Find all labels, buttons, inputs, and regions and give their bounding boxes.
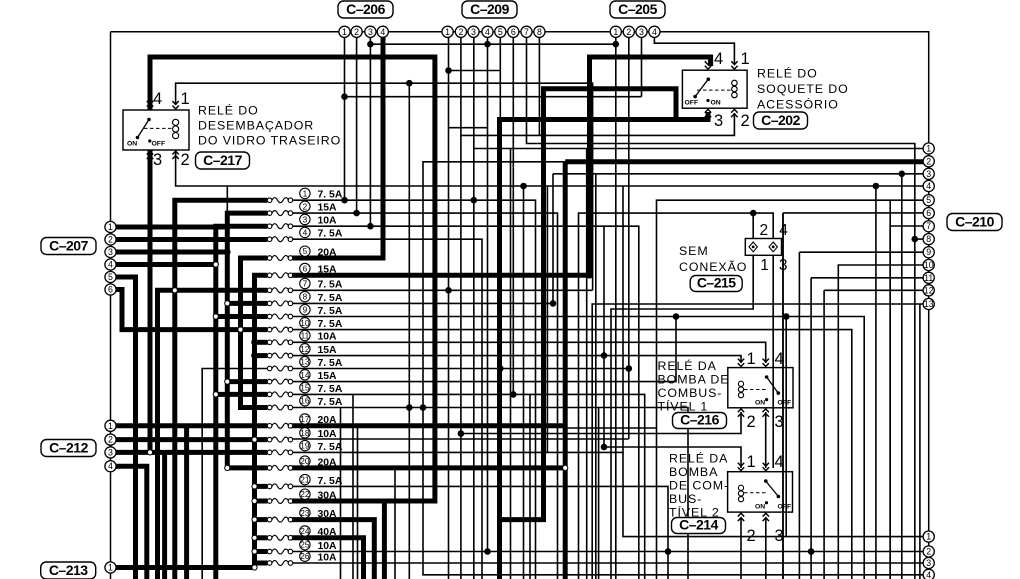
node bus254/fuse22 [252,498,257,503]
connector label C-209 [462,1,517,18]
wire C-209 pin7 to net y143.5 [527,37,915,579]
relay C-214 switch [744,479,780,504]
connector C-206 pin 2 [351,26,362,37]
wire C-209 pin8 down [538,37,540,135]
svg-text:C–216: C–216 [680,411,719,427]
fuse F20 symbol [267,465,292,470]
wire C-215 pin3 down [772,255,774,468]
wire fuse19 output riser [293,186,623,452]
wire branch to fuse bus at x227 [226,186,228,213]
svg-text:4: 4 [108,461,113,471]
wire C-210 pin12 drop [823,290,825,579]
wire C-210 pin8 feed [915,238,923,240]
wire C-206 pin1 down to fuse1 line [344,37,346,200]
wire fuse25 output line to lower pin2 [293,551,923,553]
wire branch x890.2 from fuse1 line [889,200,891,579]
svg-text:SEM: SEM [679,244,709,258]
thick wire fuse17 output [290,423,565,428]
wire relay C-214 pin3 down [765,517,767,579]
svg-text:7. 5A: 7. 5A [318,293,343,304]
wire fuse21 output [293,486,668,579]
svg-text:5: 5 [926,195,931,205]
fuse F17 symbol [267,423,292,428]
wire fuse1 output line [293,200,536,579]
wire stub from C-209.1 node [449,70,501,72]
wire filler x395 [394,468,396,579]
svg-text:10A: 10A [318,332,338,343]
svg-text:3: 3 [714,112,723,130]
node bus254/fuse25 [252,549,257,554]
fuse F4 number [300,227,310,237]
wire C-210 pin12 feed [824,289,923,291]
wire thin y161.8 to drop x423 to lower pin4 [423,162,923,575]
wire fuse8 output line [293,302,553,304]
svg-text:6: 6 [303,264,308,274]
thick stub fuse24 [255,535,268,540]
thick stub fuse15 [216,392,268,397]
fuse F18 number [300,428,310,438]
thick stub fuse11 [255,340,268,345]
node bus174/fuse7 [172,288,177,293]
svg-text:1: 1 [926,144,931,154]
fuse F23 number [300,508,310,518]
svg-text:2: 2 [759,222,768,239]
svg-text:1: 1 [747,453,756,471]
wire C-205 pin3 drop [641,37,643,97]
node fuse6out/riser [586,272,593,279]
node C-205.2/fuse13 [626,365,633,372]
svg-text:12: 12 [924,285,934,295]
connector label C-213 [41,562,96,579]
connector C-215 box [745,239,781,256]
svg-text:C–212: C–212 [49,439,88,455]
fuse F19 number [300,440,310,450]
svg-text:RELÉ DO: RELÉ DO [198,103,259,118]
node bus254/fuse24 [252,535,257,540]
relay C-217 pin4 arrows [147,101,153,109]
wire filler x357.5 [357,426,359,579]
thick stub fuse9 [216,314,268,319]
connector C-207 pin 2 [105,234,116,245]
thick wire C-212 pin2 fuse18 row [111,437,268,442]
thick wire C-212 pin3 fuse19 row [111,450,268,455]
node C-206.1/y96.7 [341,93,348,100]
node x604/fuse12 [601,352,608,359]
thick bus x240.5 fuse5-fuse16 [241,258,268,408]
connector C-209 pin 2 [455,26,466,37]
svg-text:5: 5 [498,27,503,37]
wire relay C-216 pin3 to C-214 pin4 [765,412,767,468]
svg-text:1: 1 [613,27,618,37]
svg-text:12: 12 [300,344,310,354]
svg-text:C–215: C–215 [697,274,736,290]
fuse F21 number [300,474,310,484]
fuse F13 symbol [267,366,292,371]
fuse F1 symbol [267,198,292,203]
fuse F7 number [300,278,310,288]
svg-text:2: 2 [926,156,931,166]
svg-text:24: 24 [300,526,310,536]
thick stub fuse21 [255,484,268,489]
svg-text:3: 3 [108,447,113,457]
svg-text:11: 11 [924,273,933,283]
thick wire fuse24 output down [290,538,363,579]
connector lower-right pin 2 [923,546,934,557]
wire curtain x510.5 [510,149,512,579]
fuse F18 symbol [267,437,292,442]
svg-text:40A: 40A [318,527,338,538]
thick bus x227 fuse2-fuse20 [227,213,267,468]
node C-207.3/bus227 [224,249,231,256]
node bus254/fuse21 [252,484,257,489]
connector C-212 pin 2 [105,434,116,445]
node bus227/fuse20corner [225,465,230,470]
node x875/C-210.4 [873,183,880,190]
wire curtain x598.6 [598,408,600,579]
wire C-210 pin13 feed [592,304,923,579]
node bus240/fuse10 [238,327,243,332]
svg-text:3: 3 [303,214,308,224]
relay C-217 coil [173,119,179,138]
connector C-210 pin 4 [923,180,934,191]
thick wire fuse23 output down [290,520,374,579]
fuse F24 symbol [267,535,292,540]
connector C-206 pin 4 [377,26,388,37]
thick riser bus x543.5 to C-202 pin3 [500,89,677,520]
connector C-207 pin 4 [105,259,116,270]
wire curtain x547.4 [546,186,548,452]
fuse F22 number [300,489,310,499]
thick stub fuse26 [255,561,268,566]
svg-text:20A: 20A [318,247,338,258]
svg-text:C–210: C–210 [955,213,994,229]
svg-text:ACESSÓRIO: ACESSÓRIO [757,97,839,112]
connector C-207 pin 3 [105,246,116,257]
node C-209.1/y70.5 [445,67,452,74]
wire C-210 pin1 feed [474,148,923,150]
wire fuse12 output to relay C-216 pin1 [293,356,741,363]
wire curtain x586.7 [586,149,588,579]
svg-text:14: 14 [300,370,310,380]
wire C-202 pin2 run [461,113,735,579]
svg-text:1: 1 [760,257,769,274]
connector C-215 terminals [749,242,777,252]
svg-text:30A: 30A [318,509,338,520]
relay C-202 pin1 arrows [731,61,737,69]
fuse F26 symbol [267,561,292,566]
node x553/fuse8 [550,300,557,307]
wire fuse15 output line [293,394,645,579]
fuse F9 symbol [267,314,292,319]
thick bus x215.8 fuse3 down [216,226,268,579]
node x786/fuse9 [783,313,790,320]
node C-209.3/fuse1 [471,197,478,204]
thick wire C-217 pin4 to fuse22 output [150,57,435,501]
svg-text:15A: 15A [318,203,338,214]
fuse F23 symbol [267,517,292,522]
svg-text:13: 13 [300,357,310,367]
svg-text:CONEXÃO: CONEXÃO [679,260,747,274]
junction block frame border [111,32,929,579]
thick stub fuse12 [255,353,268,358]
wire C-205 pin2 down [628,37,630,439]
svg-text:ON: ON [711,100,721,107]
wire branch x553 to fuse8 line [552,174,554,304]
connector C-205 pin 1 [610,26,621,37]
fuse F1 number [300,188,310,198]
svg-text:7. 5A: 7. 5A [318,280,343,291]
node x811/fuse25 [808,548,815,555]
wire fuse11 output to relay C-216 pin4 [293,342,766,363]
thick wire C-213 pin1 [111,565,255,570]
relay C-216 pin2 arrows [738,409,744,417]
svg-text:26: 26 [300,551,310,561]
wire C-214 pin1 feed [604,447,741,468]
fuse F15 number [300,382,310,392]
svg-text:10A: 10A [318,216,338,227]
svg-text:DESEMBAÇADOR: DESEMBAÇADOR [198,119,314,133]
connector C-206 pin 3 [365,26,376,37]
svg-text:3: 3 [639,27,644,37]
svg-text:4: 4 [714,50,723,68]
connector C-210 pin 5 [923,195,934,206]
svg-text:2: 2 [926,547,931,557]
thick wire C-207 pin2 to fuse4 [111,237,268,242]
relay C-214 pin2 arrows [738,513,744,521]
node C-209.4/y44.2 [484,41,491,48]
svg-text:1: 1 [926,532,931,542]
wire filler x340.5 [340,408,342,579]
node x914/C-210.8 [912,236,919,243]
wire fuse14 output riser [293,317,676,382]
fuse F12 symbol [267,353,292,358]
wire C-210 pin6 feed [783,212,923,214]
thick branch x186.6 down [184,426,189,579]
thick wire C-207 pin6 to fuse10 [111,290,268,330]
svg-text:5: 5 [303,246,308,256]
connector C-209 pin 4 [482,26,493,37]
svg-text:7. 5A: 7. 5A [318,319,343,330]
relay C-216 pin3 arrows [763,409,769,417]
svg-text:16: 16 [300,396,310,406]
svg-text:DO VIDRO TRASEIRO: DO VIDRO TRASEIRO [198,134,341,148]
connector lower-right pin 3 [923,557,934,568]
fuse F26 number [300,551,310,561]
svg-text:1: 1 [108,563,113,573]
svg-text:4: 4 [153,90,162,108]
fuse F9 number [300,305,310,315]
node bus254/fuse18 [252,437,257,442]
fuse F25 number [300,540,310,550]
relay C-202 switch [693,77,731,102]
svg-text:2: 2 [747,527,756,545]
node x409/y83.2 [406,80,413,87]
connector C-210 pin 10 [923,259,934,270]
svg-text:23: 23 [300,508,310,518]
svg-text:BOMBA DE: BOMBA DE [658,373,730,387]
svg-text:1: 1 [747,350,756,368]
relay C-216 pin1 arrows [738,359,744,367]
connector C-212 pin 1 [105,420,116,431]
svg-text:BUS-: BUS- [669,492,702,506]
svg-text:10A: 10A [318,552,338,563]
wire C-210 pin5 feed [657,200,924,579]
svg-text:15A: 15A [318,265,338,276]
node bus254/fuse23 [252,517,257,522]
svg-text:OFF: OFF [778,504,792,511]
svg-text:4: 4 [108,260,113,270]
wire relay C-216 pin2 to bus [461,412,741,434]
thick wire C-212 pin4 down [111,466,147,579]
connector C-209 pin 1 [442,26,453,37]
svg-text:9: 9 [303,305,308,315]
svg-text:7. 5A: 7. 5A [318,442,343,453]
svg-text:4: 4 [779,222,788,239]
svg-text:7: 7 [926,221,931,231]
wire net y44.2 C-206.3 to C-205.1 [370,43,615,45]
svg-text:1: 1 [108,222,113,232]
relay C-214 designator [672,516,726,533]
wire C-209 pin1 down [448,37,450,579]
svg-text:20: 20 [300,456,310,466]
svg-text:7. 5A: 7. 5A [318,358,343,369]
svg-text:19: 19 [300,441,310,451]
wire fuse4 output [293,239,482,579]
thick branch fuse22 down x384.4 [382,501,387,579]
relay C-217 pin1 arrows [172,101,178,109]
svg-text:25: 25 [300,540,310,550]
fuse F14 number [300,370,310,380]
node bus148/fuse19 [147,450,152,455]
thick stub fuse23 [255,517,268,522]
svg-text:17: 17 [300,414,310,424]
wire C-210 pin11 drop [810,278,812,579]
connector C-210 pin 2 [923,156,934,167]
fuse F13 number [300,357,310,367]
connector C-206 pin 1 [339,26,350,37]
relay C-202 pin2 arrows [731,109,737,117]
svg-text:C–206: C–206 [346,1,385,17]
fuse F11 number [300,330,310,340]
wire curtain x604 [603,226,605,447]
relay C-217 switch [136,118,172,143]
svg-text:3: 3 [775,527,784,545]
fuse F2 number [300,201,310,211]
svg-text:OFF: OFF [152,141,166,148]
wire fuse13 input from below [202,369,267,579]
thick wire C-207 pin4 [111,262,216,267]
svg-text:C–214: C–214 [679,516,718,532]
fuse F3 symbol [267,224,292,229]
svg-text:6: 6 [511,27,516,37]
wire fuse9 output to right drop [293,317,865,579]
connector label C-207 [41,237,96,254]
svg-text:8: 8 [303,292,308,302]
thick wire C-207 pin5 down [111,277,136,579]
svg-text:4: 4 [775,453,784,471]
relay C-214 box [728,472,793,512]
node bus254/fuse11 [251,339,258,346]
svg-text:3: 3 [775,413,784,431]
connector C-215 designator [690,274,742,291]
relay C-216 designator [673,411,727,428]
svg-text:7. 5A: 7. 5A [318,397,343,408]
connector C-210 pin 3 [923,168,934,179]
svg-text:3: 3 [779,257,788,274]
wire fuse13 output line [293,368,629,370]
wire C-210 pin9 feed [799,251,923,253]
wire C-210 pin6 drop [782,213,784,579]
wire net y127.7 [449,127,488,129]
relay C-214 pin4 arrows [763,463,769,471]
svg-text:9: 9 [926,247,931,257]
connector C-212 pin 3 [105,447,116,458]
relay C-214 pin1 arrows [738,463,744,471]
svg-text:SOQUETE DO: SOQUETE DO [757,82,849,96]
wire net to C-215 pin4 [579,213,774,579]
wire fuse3 output line [293,226,639,579]
thick branch x164.6 down [162,452,167,579]
node C-206.2/fuse2 [353,210,360,217]
wire C-215 pin2 feed [752,213,754,238]
wire branch x875.9 from C-210.4 line [875,186,877,579]
fuse F10 number [300,318,310,328]
svg-text:2: 2 [458,27,463,37]
connector label C-210 [947,213,1002,230]
wire C-215 pin1 down-left [611,255,753,579]
relay C-217 pin3 arrows [147,151,153,159]
node C-205.1/y44.2 [613,41,620,48]
node C-215.2/fuse2 [750,210,757,217]
wire fuse7 output line [293,289,593,291]
node bus254/C-213.1 [252,565,257,570]
fuse F17 number [300,414,310,424]
node C-209.1/fuse7 [445,287,452,294]
connector C-209 pin 7 [521,26,532,37]
svg-text:2: 2 [354,27,359,37]
svg-text:C–213: C–213 [49,562,88,578]
thick wire fuse7 input from below [158,290,268,579]
svg-text:DE COM-: DE COM- [669,479,729,493]
connector C-212 pin 4 [105,461,116,472]
connector C-210 pin 6 [923,208,934,219]
wire C-217 pin2 to C-210 pin4 [176,150,923,186]
node C-209.5/fuse13 [497,365,504,372]
thick wire C-212 pin1 fuse17 row [111,423,268,428]
svg-text:10A: 10A [318,541,338,552]
relay C-202 pin3 arrows [705,109,711,117]
svg-text:11: 11 [301,331,310,341]
fuse F16 symbol [267,405,292,410]
connector C-210 pin 7 [923,221,934,232]
svg-text:C–207: C–207 [49,237,88,253]
svg-text:4: 4 [303,227,308,237]
connector C-210 pin 12 [923,285,934,296]
wire relay C-214 pin2 down [740,517,742,579]
node bus215/fuse15 [213,392,218,397]
node C-206.3/y44.2 [367,41,374,48]
fuse F20 number [300,456,310,466]
wire filler x353 [352,394,354,579]
wire fuse2 output line [293,213,558,579]
connector label C-205 [610,1,665,18]
relay C-217 box [123,110,189,150]
relay C-216 switch [744,375,780,401]
fuse F8 symbol [267,301,292,306]
connector C-207 pin 1 [105,221,116,232]
svg-text:ON: ON [127,141,137,148]
wire node y96.7 to C-205 pin3 [345,96,642,98]
